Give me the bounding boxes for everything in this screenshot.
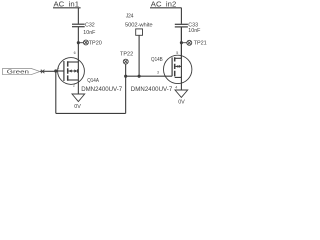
node J24 gate junction <box>138 75 141 78</box>
node TP20 junction <box>77 41 80 44</box>
ground 0V (left) <box>72 94 85 102</box>
no-connect X mark at flag tip <box>41 70 45 74</box>
wire gate node to Q14A gate <box>56 70 64 72</box>
svg-text:J24: J24 <box>126 13 134 19</box>
svg-text:TP22: TP22 <box>120 52 133 58</box>
capacitor C32 <box>72 24 85 27</box>
svg-text:5002-white: 5002-white <box>125 22 153 28</box>
node TP21 junction <box>180 41 183 44</box>
wire AC_in2 vertical to C33 <box>180 8 182 24</box>
net flag Green <box>3 68 40 74</box>
label C32 value <box>83 22 96 35</box>
svg-text:2: 2 <box>73 84 75 88</box>
net label AC_in2 <box>151 0 177 8</box>
pin 3 Q14B gate <box>157 51 178 89</box>
svg-text:Q14B: Q14B <box>151 57 163 64</box>
svg-text:5: 5 <box>176 51 178 55</box>
svg-text:DMN2400UV-7: DMN2400UV-7 <box>81 86 123 93</box>
label Q14B <box>131 57 173 94</box>
wire gate line to Q14B <box>126 75 172 77</box>
svg-text:Q14A: Q14A <box>87 77 99 84</box>
wire Q14B drain up <box>180 27 182 58</box>
node TP22 gate junction <box>124 75 127 78</box>
svg-text:3: 3 <box>157 71 159 75</box>
connector J24 <box>125 13 153 28</box>
wire flag to gate node <box>40 70 56 72</box>
svg-text:1: 1 <box>57 66 59 70</box>
svg-text:TP20: TP20 <box>89 40 102 46</box>
svg-text:10nF: 10nF <box>83 30 96 36</box>
capacitor C33 <box>175 24 188 27</box>
wire C33 to Q14B drain <box>180 27 182 58</box>
svg-text:AC_in2: AC_in2 <box>151 0 177 8</box>
wire C32 to Q14A drain <box>77 27 79 62</box>
node gate Q14A junction <box>54 69 57 72</box>
test point TP20 <box>78 40 88 45</box>
wire AC_in1 underline <box>53 7 81 9</box>
net label AC_in1 <box>54 0 80 8</box>
svg-text:10nF: 10nF <box>188 28 201 34</box>
ground 0V (right) <box>175 90 188 97</box>
svg-text:6: 6 <box>74 51 76 55</box>
svg-text:AC_in1: AC_in1 <box>54 0 80 8</box>
wire Q14A source to ground <box>77 80 79 94</box>
svg-text:C32: C32 <box>85 22 95 28</box>
wire bottom rail <box>56 112 126 114</box>
wire J24 pin to gate line <box>138 35 140 76</box>
wire AC_in2 underline <box>150 7 182 9</box>
svg-text:TP21: TP21 <box>194 41 207 47</box>
svg-text:Green: Green <box>7 70 29 76</box>
svg-text:4: 4 <box>175 85 177 89</box>
transistor Q14B (MOSFET) <box>164 55 192 83</box>
svg-text:0V: 0V <box>74 104 81 110</box>
test point TP22 <box>120 52 133 58</box>
transistor Q14A (MOSFET) <box>58 58 85 85</box>
test point TP21 <box>181 40 191 45</box>
wire gate node down to bottom rail <box>55 71 57 113</box>
wire Q14B source to ground <box>180 77 182 90</box>
pin 1 Q14A gate <box>57 51 75 88</box>
svg-text:0V: 0V <box>178 99 185 105</box>
wire AC_in1 vertical to C32 <box>77 8 79 24</box>
svg-text:DMN2400UV-7: DMN2400UV-7 <box>131 86 173 93</box>
label Q14A <box>81 77 123 93</box>
wire rail up to TP22 <box>125 64 127 113</box>
